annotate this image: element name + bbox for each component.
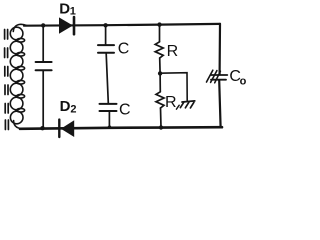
svg-text:2: 2	[70, 103, 76, 115]
ground	[176, 101, 194, 109]
svg-text:C: C	[119, 102, 131, 119]
diode D2	[59, 120, 74, 137]
svg-text:R: R	[167, 43, 179, 60]
resistor R (top)	[155, 25, 163, 74]
junction (C branch / top rail)	[103, 23, 107, 27]
wire right rail lower	[219, 80, 220, 127]
inductor L (antenna coil)	[10, 24, 27, 128]
capacitor Co (feedthrough, hatched)	[207, 70, 228, 83]
wire from R tap to ground	[160, 73, 187, 101]
ferrite rod (dashed bars)	[5, 30, 9, 130]
resistor R (bottom)	[156, 73, 164, 127]
junction (C branch / bottom rail)	[107, 125, 113, 128]
diode D1	[59, 17, 74, 34]
label D2	[60, 98, 77, 116]
junction (R divider tap)	[158, 71, 162, 75]
svg-text:o: o	[240, 76, 247, 88]
label D1	[59, 0, 76, 17]
tuning capacitor across coil	[36, 25, 52, 128]
junction (tuning cap / top rail)	[41, 23, 45, 27]
wire bottom rail	[20, 127, 222, 129]
svg-text:R: R	[165, 94, 177, 111]
svg-text:D: D	[59, 0, 70, 17]
wire top rail	[24, 24, 220, 26]
capacitor C (top)	[98, 25, 114, 103]
svg-text:1: 1	[70, 6, 76, 18]
wire right rail upper	[219, 24, 222, 74]
junction (tuning cap / bottom rail)	[40, 126, 44, 130]
junction (R branch / top rail)	[157, 22, 161, 26]
label Co	[229, 68, 246, 88]
svg-text:D: D	[60, 98, 71, 115]
junction (R branch / bottom rail)	[159, 125, 163, 129]
capacitor C (bottom)	[100, 104, 117, 128]
svg-text:C: C	[118, 41, 130, 58]
